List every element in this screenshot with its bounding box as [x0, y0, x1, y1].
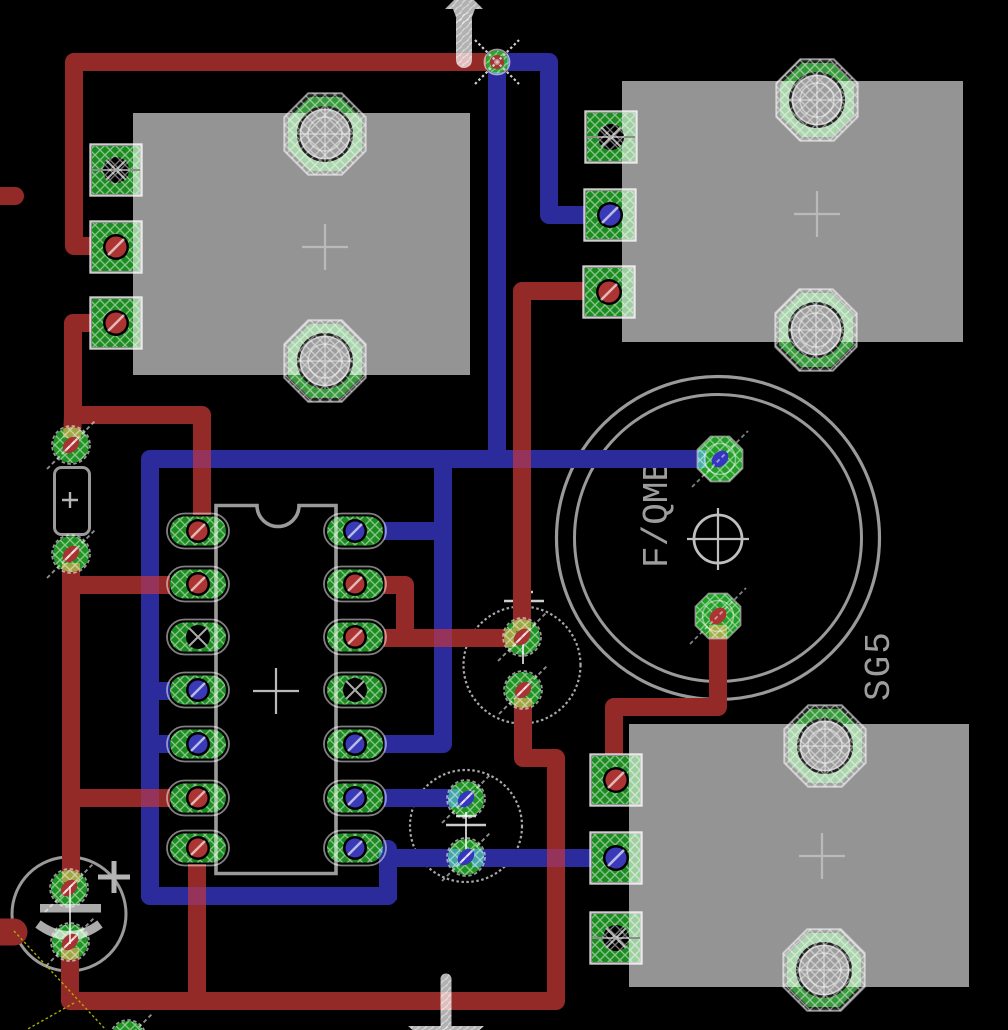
op-amp U1 pin 7 [167, 831, 229, 866]
wire red K1 pin3 down [72, 323, 91, 438]
op-amp U1 pin 13 [324, 567, 386, 602]
capacitor C1 pad 2 [499, 666, 547, 714]
wire red buzzer pad2 to K3 pin1 [614, 625, 718, 754]
wire blue C2 pad2 link [388, 849, 460, 867]
wire blue to U1 pin row5 left [150, 735, 170, 753]
origin arrow top [445, 0, 483, 60]
wire blue bottom horizontal [150, 887, 388, 905]
airwire 1 [14, 931, 106, 1030]
airwire 2 [26, 1003, 74, 1030]
relay K3 pad 2 [591, 833, 642, 884]
wire blue via down to bus [488, 72, 506, 459]
capacitor C4 outline [55, 468, 90, 535]
op-amp U1 pin 5 [167, 727, 229, 762]
op-amp U1 pin 14 [324, 514, 386, 549]
buzzer SG1 pad 2 [690, 588, 746, 644]
wire red branch to U1 pin1 left [73, 415, 202, 515]
capacitor C1 pad 1 [498, 613, 546, 661]
wire red U1 row2 right jog [384, 585, 405, 638]
capacitor C3 outline [12, 857, 130, 971]
relay K1 pad 3 [91, 298, 142, 349]
relay K3 pad 3 [591, 913, 642, 964]
capacitor C3 pad 1 [45, 864, 93, 912]
wire blue left vertical [141, 459, 159, 896]
capacitor C2 pad 1 [442, 775, 490, 823]
relay K3 pad 1 [591, 755, 642, 806]
wire red U1 row3 right to C1 pad1 [384, 629, 516, 647]
capacitor C4 pad 1 [47, 421, 95, 469]
op-amp U1 pin 11 [324, 673, 386, 708]
wire red left edge stub upper [0, 187, 15, 205]
capacitor C2 pad 2 [442, 833, 490, 881]
wire blue C2 pad2 to K3 pin2 [472, 849, 591, 867]
relay K1 body [133, 113, 470, 375]
op-amp U1 pin 4 [167, 673, 229, 708]
relay K1 pad 2 [91, 222, 142, 273]
capacitor C1 outline [464, 588, 581, 724]
capacitor C4 pad 2 [47, 530, 95, 578]
relay K2 pad 1 [586, 112, 637, 163]
svg-text:F/QMB: F/QMB [637, 460, 678, 568]
relay K3 mount hole top [784, 705, 865, 786]
wire blue horizontal bus to buzzer pad 1 [150, 450, 706, 468]
wire blue mid vertical [434, 459, 452, 744]
buzzer SG1 pad 1 [692, 431, 748, 487]
wire blue via to K2 pin2 [507, 62, 584, 215]
relay K2 pad 2 [585, 190, 636, 241]
relay K1 mount hole top [284, 93, 365, 174]
wire red C4 to U1 pin2 left [71, 563, 170, 585]
wire red C1 pad1 up to K2 pin3 [522, 291, 584, 631]
capacitor C2 outline [410, 770, 522, 882]
op-amp U1 pin 10 [324, 727, 386, 762]
wire red left vertical down [62, 585, 80, 882]
op-amp U1 pin 6 [167, 781, 229, 816]
buzzer SG1 outline [557, 377, 880, 700]
op-amp U1 pin 2 [167, 567, 229, 602]
op-amp U1 pin 1 [167, 514, 229, 549]
svg-text:SG5: SG5 [859, 630, 900, 701]
relay K1 mount hole bottom [284, 320, 365, 401]
wire blue riser to U1 pin row7 right [383, 849, 388, 900]
wire red top horizontal to K1 pin2 [74, 62, 486, 246]
wire blue U1 pin1 right stub [384, 522, 443, 540]
wire blue U1 row6 right to C2 pad1 [384, 789, 460, 807]
capacitor C3 pad 2 [46, 918, 94, 966]
relay K2 body [622, 81, 963, 342]
op-amp U1 pin 9 [324, 781, 386, 816]
wire blue to U1 pin row5 right [384, 735, 443, 753]
relay K3 mount hole bottom [783, 929, 864, 1010]
op-amp U1 outline (DIP-14) [216, 506, 336, 874]
relay K2 mount hole bottom [775, 289, 856, 370]
relay K1 pad 1 [91, 145, 142, 196]
relay K2 pad 3 [584, 267, 635, 318]
capacitor C3 center line [69, 886, 71, 944]
op-amp U1 pin 8 [324, 831, 386, 866]
wire red U1 row7 left to bottom bus [188, 864, 206, 1001]
op-amp U1 pin 3 [167, 620, 229, 655]
buzzer SG1 center hole [687, 508, 749, 570]
via V1 [475, 40, 519, 84]
junction overlaps (layer blend) [141, 450, 565, 905]
wire red to U1 pin row6 left [71, 789, 170, 807]
relay K2 mount hole top [776, 59, 857, 140]
op-amp U1 pin 12 [324, 620, 386, 655]
pad at bottom edge [104, 1014, 152, 1030]
wire red C3 pad2 to bottom bus [70, 698, 556, 1001]
wire blue to U1 pin row4 left [150, 682, 170, 700]
relay K3 body [629, 724, 969, 987]
wire red left edge stub lower [0, 919, 14, 946]
origin arrow bottom [408, 979, 484, 1030]
